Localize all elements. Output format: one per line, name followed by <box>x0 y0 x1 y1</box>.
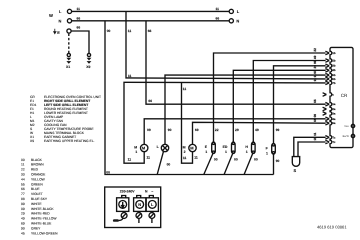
wire 22 CR pin A1 to E1 <box>214 53 326 142</box>
svg-text:N: N <box>138 202 141 207</box>
wire 90 CR pin A5 to lamp L <box>165 75 326 145</box>
IC CR electronic oven control unit box <box>330 47 353 147</box>
screw N <box>136 213 142 219</box>
svg-text:66: 66 <box>313 99 317 103</box>
svg-text:99: 99 <box>313 60 317 64</box>
svg-text:5b: 5b <box>332 74 335 77</box>
svg-text:BROWN: BROWN <box>31 163 44 167</box>
terminal E left with PE arrow glyph <box>54 29 56 34</box>
svg-text:00: 00 <box>106 171 110 175</box>
svg-text:99: 99 <box>276 128 280 132</box>
svg-text:1: 1 <box>246 150 248 154</box>
svg-text:M: M <box>183 145 186 149</box>
svg-text:45: 45 <box>21 231 25 235</box>
motor M2 cooling fan <box>189 144 196 151</box>
svg-text:55: 55 <box>21 182 25 186</box>
svg-text:77: 77 <box>21 192 25 196</box>
svg-text:1: 1 <box>205 150 207 154</box>
wire 29 CR pin A4 to ED1 <box>233 70 325 142</box>
wire 11 S probe to CR pin C1 <box>294 137 326 157</box>
svg-text:1a: 1a <box>332 103 335 106</box>
terminal E square <box>117 198 129 212</box>
svg-text:11: 11 <box>216 7 220 11</box>
lamp L oven lamp <box>161 144 168 151</box>
svg-text:YELLOW-GREEN: YELLOW-GREEN <box>31 231 58 235</box>
svg-text:11: 11 <box>77 7 81 11</box>
svg-text:90: 90 <box>168 128 172 132</box>
svg-text:4b: 4b <box>332 69 335 72</box>
svg-text:49: 49 <box>313 55 317 59</box>
wire dashed E to X1 <box>68 34 70 54</box>
svg-text:69: 69 <box>195 128 199 132</box>
svg-text:22: 22 <box>21 168 25 172</box>
motor M1 cavity fan <box>141 144 148 151</box>
svg-text:1b: 1b <box>332 52 335 55</box>
svg-text:WHITE-BLUE: WHITE-BLUE <box>31 222 52 226</box>
MAINS <box>49 7 240 69</box>
svg-text:E: E <box>57 30 60 35</box>
svg-text:00: 00 <box>167 163 171 167</box>
pin arrowheads unconnected <box>323 93 327 116</box>
svg-text:N: N <box>236 19 239 24</box>
svg-text:M: M <box>134 145 137 149</box>
svg-text:90: 90 <box>276 159 280 163</box>
svg-text:ED: ED <box>223 145 228 149</box>
COMPONENTS <box>128 128 300 175</box>
wire N rail <box>72 20 230 22</box>
svg-text:66: 66 <box>21 187 25 191</box>
svg-text:11: 11 <box>128 29 132 33</box>
svg-text:49: 49 <box>21 217 25 221</box>
svg-text:RED: RED <box>31 168 39 172</box>
wire junction branch M2 <box>182 83 193 164</box>
svg-text:Tc: Tc <box>332 141 335 144</box>
wire 09 M1 to CR pin B4 <box>144 119 325 145</box>
svg-text:11: 11 <box>128 74 132 78</box>
wire E1 bottom diagonal <box>204 154 213 175</box>
svg-text:4619 619 03861: 4619 619 03861 <box>317 225 347 230</box>
svg-text:4a: 4a <box>332 118 335 121</box>
svg-text:00: 00 <box>107 29 111 33</box>
svg-text:69: 69 <box>313 118 317 122</box>
svg-text:00: 00 <box>214 158 218 162</box>
svg-text:Bu/Tc: Bu/Tc <box>343 135 350 138</box>
svg-text:BLUE: BLUE <box>31 187 40 191</box>
svg-text:00: 00 <box>254 158 258 162</box>
svg-text:66: 66 <box>148 29 152 33</box>
svg-text:VIOLET: VIOLET <box>31 192 43 196</box>
svg-text:CR: CR <box>341 93 348 98</box>
wire 49 CR pin A2 to H1 <box>253 61 325 143</box>
svg-text:2b: 2b <box>332 60 335 63</box>
svg-text:YELLOW: YELLOW <box>31 177 46 181</box>
wire H1 bottom diagonal <box>244 154 253 175</box>
terminal N right <box>229 19 233 23</box>
svg-text:BLACK: BLACK <box>31 158 43 162</box>
wire 99 CR pin A3 to F1 <box>274 66 326 144</box>
svg-text:11: 11 <box>313 132 317 136</box>
svg-text:88: 88 <box>21 197 25 201</box>
wire lamp bottom diagonal to 00 bus <box>157 151 163 175</box>
LEGEND-COLORS <box>21 158 58 236</box>
pin Vss terminal circle <box>351 124 354 127</box>
svg-text:1: 1 <box>225 150 227 154</box>
svg-text:29: 29 <box>313 65 317 69</box>
svg-text:Vss: Vss <box>344 125 349 128</box>
svg-text:22: 22 <box>313 48 317 52</box>
heating element F1 round <box>272 144 276 154</box>
heating element ED1 left side grill <box>232 142 236 153</box>
svg-text:N: N <box>59 18 62 23</box>
terminal L right <box>229 9 233 13</box>
svg-text:3a: 3a <box>332 113 335 116</box>
svg-text:29: 29 <box>21 212 25 216</box>
svg-text:ORANGE: ORANGE <box>31 173 46 177</box>
pin numbers inside CR <box>332 52 335 144</box>
svg-text:2a: 2a <box>332 108 335 111</box>
svg-text:7b: 7b <box>332 82 335 85</box>
svg-text:69: 69 <box>21 222 25 226</box>
svg-text:2: 2 <box>184 150 186 154</box>
svg-text:11: 11 <box>147 155 151 159</box>
svg-text:BLUE SKY: BLUE SKY <box>31 197 48 201</box>
svg-text:00: 00 <box>21 158 25 162</box>
svg-text:6b: 6b <box>332 78 335 81</box>
LEGEND-COMPONENTS <box>30 95 101 143</box>
svg-text:1: 1 <box>266 151 268 155</box>
svg-text:1: 1 <box>135 150 137 154</box>
CRBOX <box>330 47 355 147</box>
svg-text:11: 11 <box>313 74 317 78</box>
svg-text:WHITE-BLACK: WHITE-BLACK <box>31 207 54 211</box>
svg-text:11: 11 <box>313 137 317 141</box>
svg-text:X9: X9 <box>30 139 34 143</box>
WBLOCK <box>105 187 161 228</box>
earthing X1 <box>67 53 70 56</box>
heating element E1 right side grill <box>212 142 216 153</box>
pin arrowheads connected <box>325 51 329 144</box>
svg-text:11: 11 <box>183 87 187 91</box>
wire 11 CR pin A7 to M1/M2 lower terminals <box>124 82 326 163</box>
wire 11 S probe to CR pin C2 <box>298 142 326 157</box>
earthing X9 <box>87 53 90 56</box>
svg-text:09: 09 <box>21 207 25 211</box>
svg-text:11: 11 <box>183 156 187 160</box>
screw E <box>121 213 127 219</box>
svg-text:W: W <box>49 13 53 18</box>
terminal N square <box>134 198 146 212</box>
svg-text:66: 66 <box>148 99 152 103</box>
terminal block W pictorial outer box <box>105 187 161 228</box>
svg-text:33: 33 <box>21 173 25 177</box>
svg-text:09: 09 <box>313 114 317 118</box>
svg-text:66: 66 <box>77 17 81 21</box>
wire 66 from N rail down to CR pin B1 <box>146 21 326 104</box>
svg-text:22: 22 <box>215 128 219 132</box>
terminal L square <box>146 198 158 212</box>
wire 00 from N rail down and bottom bus <box>105 21 274 175</box>
svg-text:11: 11 <box>313 78 317 82</box>
wire E to X9 <box>71 31 89 53</box>
svg-text:66: 66 <box>216 17 220 21</box>
probe S cavity temperature <box>292 157 299 167</box>
svg-text:11: 11 <box>128 157 132 161</box>
svg-text:00: 00 <box>234 158 238 162</box>
CR left edge with pin notches <box>330 49 332 146</box>
svg-text:11: 11 <box>21 163 25 167</box>
wire F1 bottom to 00 bus <box>273 154 275 175</box>
svg-text:29: 29 <box>235 128 239 132</box>
svg-text:Tc: Tc <box>332 136 335 139</box>
heating element H1 lower <box>252 142 256 153</box>
svg-text:EARTHING UPPER HEATING EL.: EARTHING UPPER HEATING EL. <box>44 139 95 143</box>
svg-text:230-240V: 230-240V <box>120 189 135 193</box>
svg-text:X1: X1 <box>66 65 70 69</box>
wire L rail <box>72 10 230 12</box>
svg-text:90: 90 <box>313 70 317 74</box>
svg-text:3b: 3b <box>332 64 335 67</box>
svg-text:99: 99 <box>21 202 25 206</box>
svg-text:X9: X9 <box>86 65 90 69</box>
rotated wire labels at CR pins <box>313 48 317 141</box>
earth lug wire <box>113 219 119 222</box>
svg-text:49: 49 <box>255 128 259 132</box>
svg-text:GREEN: GREEN <box>31 182 43 186</box>
svg-text:WHITE: WHITE <box>31 202 42 206</box>
screw L <box>149 213 155 219</box>
svg-text:WHITE-YELLOW: WHITE-YELLOW <box>31 217 57 221</box>
wire 11 from L rail down to CR pin A6 <box>126 11 326 79</box>
svg-text:11: 11 <box>194 155 198 159</box>
svg-text:~: ~ <box>151 189 153 193</box>
svg-text:5a: 5a <box>332 122 335 125</box>
svg-text:GREY: GREY <box>31 226 41 230</box>
wire ED1 bottom diagonal <box>224 154 233 175</box>
svg-text:90: 90 <box>21 226 25 230</box>
svg-text:WHITE-RED: WHITE-RED <box>31 212 50 216</box>
svg-text:09: 09 <box>147 128 151 132</box>
wire 69 M2 to CR pin B5 <box>193 122 326 144</box>
svg-text:S: S <box>294 168 297 173</box>
pin Bu/Tc terminal circle <box>351 134 354 137</box>
svg-text:66: 66 <box>77 26 81 30</box>
svg-text:44: 44 <box>21 177 25 181</box>
